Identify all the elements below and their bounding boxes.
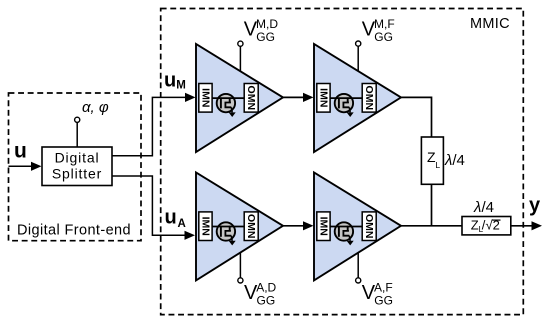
svg-text:u: u <box>14 140 27 163</box>
svg-text:GG: GG <box>374 293 393 307</box>
svg-text:A: A <box>178 218 186 230</box>
svg-text:Splitter: Splitter <box>52 166 102 182</box>
terminal V_GG A,D <box>238 278 243 283</box>
amplifier aux final (bottom-right) <box>314 172 401 280</box>
wire gate bias V_GG M,D <box>239 46 241 71</box>
svg-text:GG: GG <box>374 30 393 44</box>
svg-text:GG: GG <box>256 30 275 44</box>
svg-text:MMIC: MMIC <box>470 16 510 32</box>
wire gate bias V_GG A,F <box>357 253 359 278</box>
dashed box Digital Front-end <box>9 93 142 241</box>
svg-text:M,F: M,F <box>374 17 395 31</box>
wire u input arrow <box>9 165 33 167</box>
wire splitter to u_A (lower path) <box>112 176 186 235</box>
terminal alpha phi <box>75 117 80 122</box>
svg-text:Z: Z <box>471 218 479 233</box>
wire main final output to quarter-wave line <box>401 97 432 137</box>
label V_GG A,D <box>244 281 277 308</box>
svg-text:u: u <box>164 69 176 91</box>
terminal V_GG M,D <box>238 41 243 46</box>
svg-text:α, φ: α, φ <box>82 99 109 116</box>
wire alpha phi to splitter <box>76 122 78 147</box>
svg-text:u: u <box>165 206 177 228</box>
wire splitter to u_M (upper path) <box>112 97 187 155</box>
label V_GG A,F <box>362 281 393 308</box>
svg-text:M: M <box>176 80 186 92</box>
wire output to y <box>511 225 532 227</box>
svg-text:Digital Front-end: Digital Front-end <box>17 223 131 239</box>
amplifier main final (top-right) <box>314 44 401 152</box>
amplifier main driver (top-left) <box>196 44 283 152</box>
wire main driver to main final with arrow <box>283 96 304 98</box>
amplifier aux driver (bottom-left) <box>196 172 283 280</box>
output matching network Z_L/sqrt2 <box>462 199 511 235</box>
dashed box MMIC <box>161 9 524 315</box>
svg-text:Digital: Digital <box>55 149 100 165</box>
wire aux driver to aux final with arrow <box>283 225 304 227</box>
svg-text:GG: GG <box>257 293 276 307</box>
wire quarter-wave line to output node <box>431 184 433 226</box>
wire aux final output to combiner node <box>401 225 462 227</box>
quarter-wave impedance Z_L <box>421 137 465 184</box>
svg-text:λ/4: λ/4 <box>473 199 494 216</box>
label V_GG M,D <box>244 17 279 44</box>
block Digital Splitter <box>42 147 112 186</box>
svg-text:L: L <box>435 160 440 170</box>
terminal V_GG M,F <box>356 41 361 46</box>
label V_GG M,F <box>362 17 395 44</box>
svg-text:M,D: M,D <box>256 17 278 31</box>
wire gate bias V_GG A,D <box>239 253 241 278</box>
svg-text:y: y <box>529 195 541 217</box>
svg-text:λ/4: λ/4 <box>444 152 465 169</box>
wire gate bias V_GG M,F <box>357 46 359 71</box>
terminal V_GG A,F <box>356 278 361 283</box>
